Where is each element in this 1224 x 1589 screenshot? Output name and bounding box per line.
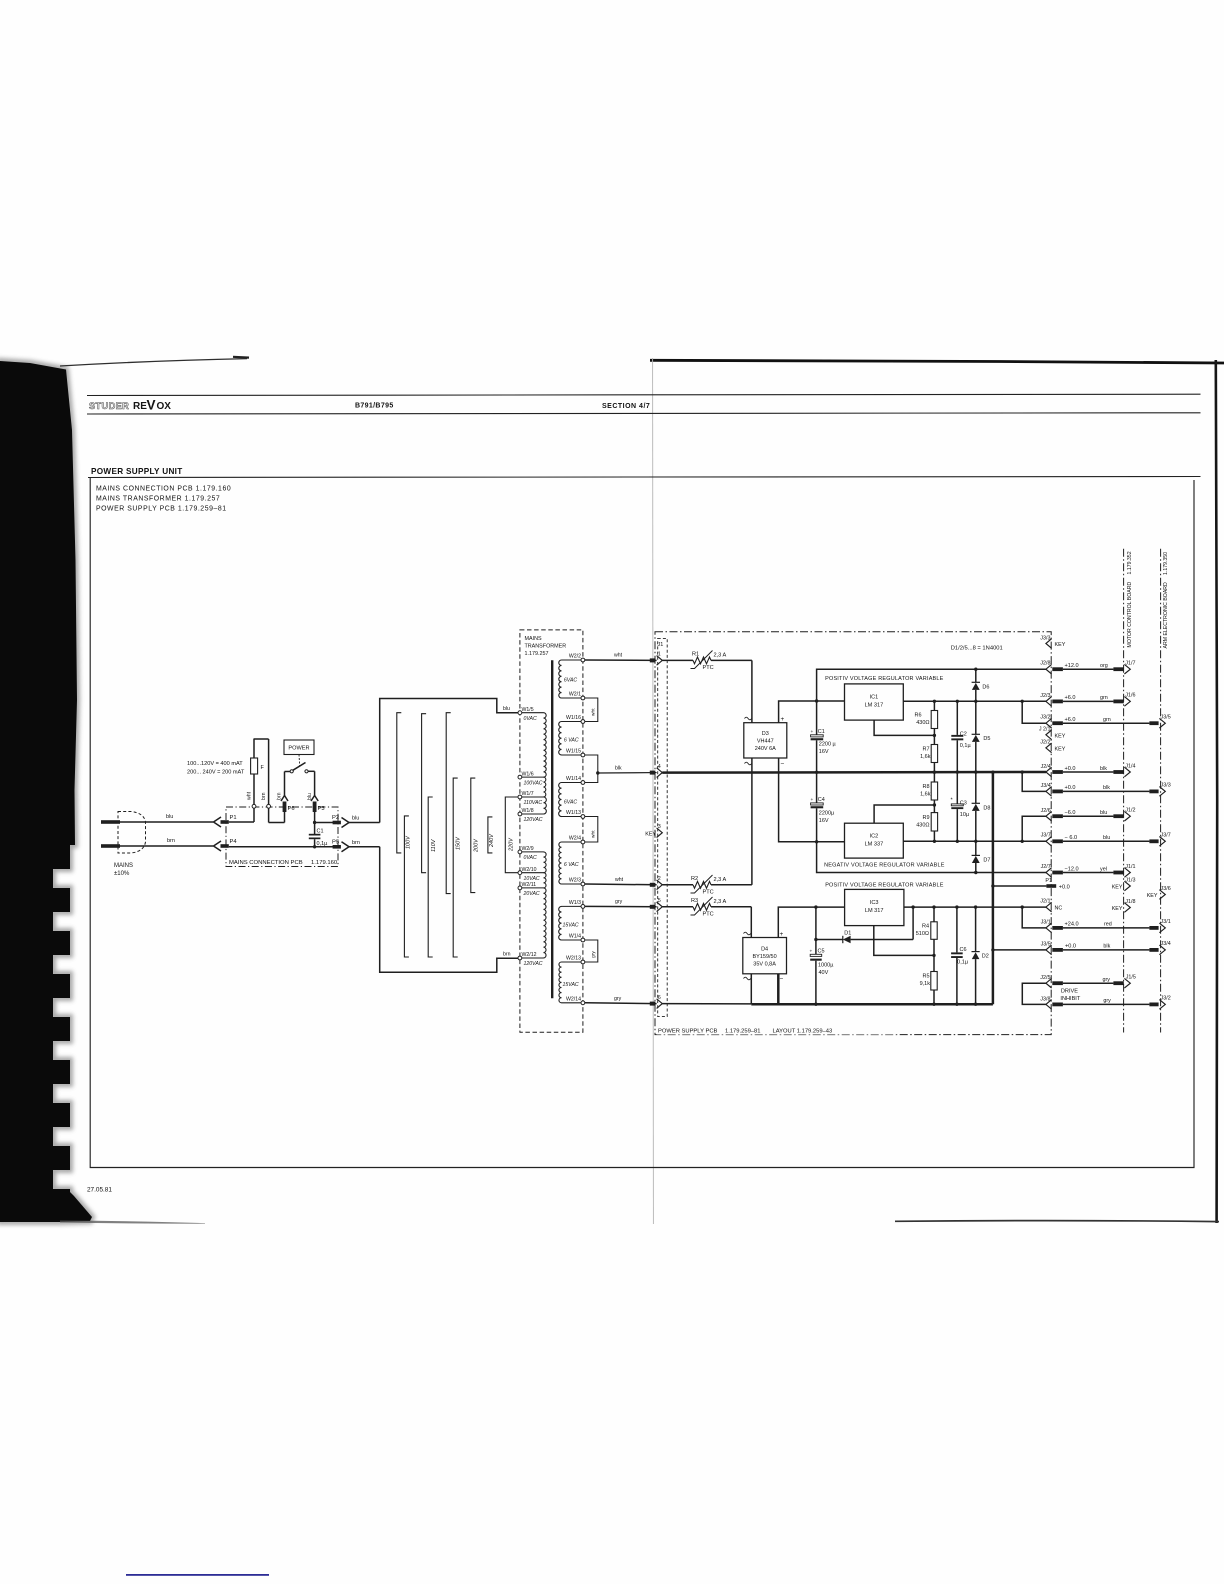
svg-text:P2: P2: [332, 815, 339, 821]
selector bracket 110V a: [422, 714, 427, 873]
diode D6: [975, 669, 977, 682]
svg-text:9,1k: 9,1k: [920, 981, 931, 987]
svg-text:+0.0: +0.0: [1065, 944, 1076, 950]
svg-text:KEY: KEY: [645, 831, 656, 837]
connector P6: [283, 802, 287, 813]
svg-text:D3: D3: [762, 731, 769, 737]
svg-text:+0.0: +0.0: [1065, 766, 1076, 772]
svg-text:C2: C2: [960, 732, 967, 738]
wire blu P2 to selector: [349, 822, 380, 824]
svg-text:D6: D6: [982, 685, 989, 691]
svg-text:−12.0: −12.0: [1065, 866, 1079, 872]
svg-text:J1/1: J1/1: [1125, 864, 1135, 870]
junction circle wht: [252, 804, 256, 808]
svg-text:R3: R3: [691, 898, 698, 904]
svg-text:0,1µ: 0,1µ: [960, 743, 972, 749]
svg-text:gry: gry: [590, 951, 596, 958]
op-amp regulator IC2 LM337: [845, 823, 904, 858]
svg-text:C4: C4: [818, 797, 825, 803]
svg-text:2200 µ: 2200 µ: [819, 742, 837, 748]
wire IC1 output +6V: [903, 700, 1046, 702]
svg-text:1,6k: 1,6k: [920, 754, 931, 760]
svg-text:P4: P4: [230, 839, 238, 845]
resistor R9 430: [933, 805, 935, 813]
capacitor C4 2200u 16V: [816, 772, 818, 803]
svg-text:+: +: [811, 730, 814, 735]
connector P1: [214, 817, 222, 827]
svg-text:W2/1: W2/1: [569, 692, 581, 698]
svg-text:brn: brn: [167, 838, 175, 844]
svg-text:110V: 110V: [431, 838, 437, 852]
secondary terminal W1/15: [581, 753, 585, 757]
connector J1 pin 2: [650, 883, 656, 887]
svg-text:100V: 100V: [406, 835, 412, 849]
wire +0.0 blk J3/5 to J3/4: [991, 948, 994, 951]
wire wht P1 to fuse: [229, 821, 254, 823]
selector bracket 200V: [471, 778, 476, 893]
svg-text:510Ω: 510Ω: [916, 931, 929, 937]
svg-text:gry: gry: [614, 996, 622, 1002]
svg-text:15VAC: 15VAC: [563, 923, 579, 929]
secondary terminal W1/14: [581, 781, 585, 785]
svg-text:+6.0: +6.0: [1065, 717, 1076, 723]
secondary winding W1/16-W1/15 6VAC: [559, 722, 562, 755]
svg-text:W1/6: W1/6: [522, 771, 534, 777]
svg-text:STUDER: STUDER: [89, 401, 129, 411]
svg-text:R2: R2: [691, 876, 698, 882]
svg-text:LM 317: LM 317: [865, 908, 884, 914]
svg-text:150V: 150V: [456, 836, 462, 850]
secondary winding W1/3-W1/4 15VAC: [559, 906, 562, 940]
svg-text:P6: P6: [288, 806, 295, 812]
wire D3 minus output: [779, 758, 845, 842]
svg-text:C6: C6: [959, 947, 966, 953]
svg-text:V: V: [147, 398, 156, 413]
svg-text:blu: blu: [503, 706, 510, 712]
svg-text:blu: blu: [307, 793, 313, 800]
jumper 220V W1/7 to W2/10: [505, 797, 518, 873]
primary winding W1/6-W1/7: [544, 777, 546, 797]
svg-text:1.179.352: 1.179.352: [1127, 551, 1133, 574]
svg-text:+0.0: +0.0: [1065, 785, 1076, 791]
mains transformer box: [520, 630, 583, 1032]
svg-text:J1/6: J1/6: [1125, 693, 1135, 699]
svg-text:wht: wht: [614, 653, 623, 659]
svg-text:+: +: [811, 798, 814, 803]
wire R3 to D4: [750, 907, 752, 938]
svg-text:KEY: KEY: [1112, 906, 1123, 912]
wire IC3 adj: [874, 926, 934, 956]
svg-text:J1/7: J1/7: [1125, 661, 1135, 667]
svg-text:SECTION 4/7: SECTION 4/7: [602, 403, 650, 410]
svg-text:J3/3: J3/3: [1161, 783, 1171, 789]
resistor R2 PTC 2.3A: [662, 884, 693, 886]
svg-text:C5: C5: [818, 949, 825, 955]
svg-text:W1/7: W1/7: [522, 791, 534, 797]
secondary terminal W2/13: [581, 960, 585, 964]
svg-text:+: +: [781, 716, 785, 723]
wire D4 plus output: [778, 907, 816, 937]
wire IC1 input: [817, 700, 845, 702]
svg-text:LM 337: LM 337: [865, 842, 884, 848]
junction circle brn: [267, 804, 271, 808]
connector P3: [311, 796, 318, 802]
svg-text:6 VAC: 6 VAC: [564, 738, 579, 744]
svg-text:MAINS TRANSFORMER 1.179.257: MAINS TRANSFORMER 1.179.257: [96, 496, 220, 503]
selector bracket 150V a: [446, 713, 451, 894]
svg-text:120VAC: 120VAC: [524, 817, 543, 823]
svg-text:W1/3: W1/3: [569, 900, 581, 906]
transformer core: [551, 660, 553, 998]
primary terminal W1/7 110VAC: [518, 795, 522, 799]
svg-text:1.179.257: 1.179.257: [525, 651, 549, 657]
secondary terminal W2/2: [581, 658, 585, 662]
svg-text:+24.0: +24.0: [1065, 922, 1079, 928]
svg-text:ARM ELECTRONIC BOARD: ARM ELECTRONIC BOARD: [1163, 582, 1169, 649]
selector bracket 100V b: [404, 816, 409, 957]
secondary terminal W1/4: [581, 938, 585, 942]
wire -6.0 blu J2/6 to J1/2: [1021, 840, 1024, 843]
svg-text:gry: gry: [1103, 977, 1111, 983]
blue pen line bottom: [126, 1574, 269, 1576]
capacitor C6 0.1u: [956, 907, 958, 952]
svg-text:J3/5: J3/5: [1161, 715, 1171, 721]
svg-text:W1/16: W1/16: [566, 715, 581, 721]
label MAINS TRANSFORMER 1.179.257: [522, 632, 570, 657]
scan page right edge vertical: [1216, 360, 1217, 1223]
svg-text:− 6.0: − 6.0: [1065, 835, 1078, 841]
wire +24.0 red J3/1 to J3/1: [1021, 905, 1024, 908]
svg-text:D1/2/5...8 = 1N4001: D1/2/5...8 = 1N4001: [951, 646, 1003, 652]
svg-text:DRIVE: DRIVE: [1061, 989, 1078, 995]
wire to P2: [315, 822, 333, 824]
secondary terminal W1/13: [581, 815, 585, 819]
header top rule: [87, 394, 1201, 396]
secondary terminal W2/1: [581, 696, 585, 700]
svg-text:J3/4: J3/4: [1161, 941, 1171, 947]
wire brn P4 to P5: [229, 846, 333, 848]
svg-text:1,6k: 1,6k: [920, 792, 931, 798]
svg-text:0VAC: 0VAC: [524, 855, 538, 861]
wire wht W2/2 to J1 pin1: [585, 659, 657, 661]
svg-text:+12.0: +12.0: [1065, 663, 1079, 669]
wire wht W2/3 to J1 pin2: [585, 883, 657, 886]
bottom rail heavy: [751, 1003, 993, 1006]
svg-text:blk: blk: [1103, 944, 1110, 950]
svg-text:POSITIV VOLTAGE REGULATOR V: POSITIV VOLTAGE REGULATOR VARIABLE: [825, 883, 944, 889]
svg-text:1.179.350: 1.179.350: [1163, 552, 1169, 575]
svg-text:10VAC: 10VAC: [524, 876, 540, 882]
svg-text:±10%: ±10%: [114, 871, 130, 877]
connector P2: [333, 821, 341, 825]
svg-text:240V 6A: 240V 6A: [755, 746, 776, 752]
svg-text:W1/15: W1/15: [566, 749, 581, 755]
wire D3 plus output: [779, 701, 817, 723]
wire brn selector bottom path to W2/12: [380, 847, 518, 972]
diode D2: [975, 907, 977, 952]
svg-text:brn: brn: [277, 792, 283, 800]
wire J1 pin6 to D4: [662, 1003, 751, 1005]
svg-text:KEY: KEY: [1147, 893, 1158, 899]
svg-text:C3: C3: [960, 801, 967, 807]
svg-text:grn: grn: [1103, 717, 1111, 723]
resistor R4 510: [933, 907, 935, 922]
svg-text:brn: brn: [352, 840, 360, 846]
capacitor C1 0.1u: [314, 823, 316, 835]
primary terminal W2/12 120VAC: [518, 956, 522, 960]
svg-text:J3/7: J3/7: [1161, 833, 1171, 839]
svg-text:D2: D2: [982, 954, 989, 960]
svg-text:J2/1: J2/1: [1040, 899, 1050, 905]
svg-text:5: 5: [658, 898, 661, 904]
op-amp regulator IC3 LM317: [845, 889, 904, 925]
svg-text:NC: NC: [1055, 906, 1063, 912]
jumper W2/1 to W1/16 wht: [585, 698, 598, 722]
svg-text:org: org: [1100, 663, 1108, 669]
svg-text:P3: P3: [318, 806, 325, 812]
svg-text:16V: 16V: [819, 818, 829, 824]
resistor R3 PTC 2.3A: [662, 906, 693, 908]
svg-text:D7: D7: [983, 858, 990, 864]
svg-text:430Ω: 430Ω: [916, 720, 929, 726]
secondary winding W1/14-W1/13 6VAC: [559, 783, 562, 817]
diode D1: [816, 939, 843, 941]
svg-text:120VAC: 120VAC: [524, 961, 543, 967]
wire IC3 output +24V: [904, 906, 1046, 908]
primary terminal W1/8 120VAC: [518, 812, 522, 816]
svg-text:grn: grn: [1100, 695, 1108, 701]
svg-text:2,3 A: 2,3 A: [714, 899, 727, 905]
connector P4: [214, 841, 222, 851]
svg-text:INHIBIT: INHIBIT: [1060, 996, 1080, 1002]
svg-text:J3/7: J3/7: [1041, 833, 1051, 839]
svg-text:D5: D5: [983, 736, 990, 742]
svg-text:430Ω: 430Ω: [916, 823, 929, 829]
svg-text:W2/9: W2/9: [522, 846, 534, 852]
svg-text:MAINS CONNECTION PCB 1.179.: MAINS CONNECTION PCB 1.179.160: [96, 486, 231, 493]
primary winding W2/11-W2/12: [544, 888, 547, 958]
svg-text:D4: D4: [761, 947, 768, 953]
ground rail 0V heavy: [662, 771, 1046, 774]
svg-text:blk: blk: [1100, 766, 1107, 772]
svg-text:P1: P1: [230, 815, 237, 821]
svg-text:P1: P1: [1045, 878, 1052, 884]
svg-text:+: +: [780, 931, 784, 938]
selector bracket 240V: [488, 817, 493, 853]
wire IC2 adj: [874, 805, 934, 823]
svg-text:wht: wht: [247, 791, 253, 800]
svg-text:POWER SUPPLY PCB 1.179.259–: POWER SUPPLY PCB 1.179.259–81: [96, 506, 227, 513]
svg-text:J3/2: J3/2: [1040, 715, 1050, 721]
secondary winding W2/2-W2/1 6VAC: [559, 660, 562, 698]
svg-text:OX: OX: [157, 401, 172, 412]
svg-text:MAINS: MAINS: [114, 863, 133, 869]
resistor R5 9.1k: [933, 955, 935, 971]
primary terminal W1/5 0VAC: [518, 711, 522, 715]
svg-text:2,3 A: 2,3 A: [714, 653, 727, 659]
secondary terminal W2/14: [581, 1001, 585, 1005]
svg-text:blu: blu: [1103, 835, 1110, 841]
svg-text:brn: brn: [503, 952, 511, 958]
svg-text:R5: R5: [922, 974, 929, 980]
svg-text:gry: gry: [1103, 998, 1111, 1004]
svg-text:W1/13: W1/13: [566, 810, 581, 816]
svg-text:0VAC: 0VAC: [524, 716, 538, 722]
title underline / frame top rule: [88, 477, 1201, 478]
scan binding black band left edge: [0, 361, 92, 1222]
svg-text:6 VAC: 6 VAC: [564, 862, 579, 868]
page center fold line: [652, 358, 655, 1224]
svg-text:wht: wht: [615, 877, 624, 883]
primary winding W1/7-W1/8: [544, 797, 547, 814]
primary winding W2/10-W2/11: [544, 873, 547, 888]
svg-text:LM 317: LM 317: [865, 703, 884, 709]
svg-text:10µ: 10µ: [960, 812, 970, 818]
junction P3 C1: [313, 821, 316, 824]
svg-text:D1: D1: [844, 931, 851, 937]
svg-text:PTC: PTC: [703, 911, 714, 917]
svg-text:C1: C1: [818, 729, 825, 735]
mains connection PCB box: [226, 807, 338, 867]
connector J1 pin 3 KEY: [657, 828, 663, 838]
svg-text:KEY: KEY: [1112, 884, 1123, 890]
svg-text:240V: 240V: [489, 833, 495, 848]
capacitor C2 0.1u: [956, 701, 958, 735]
svg-text:blu: blu: [166, 814, 173, 820]
svg-text:KEY: KEY: [1055, 642, 1066, 648]
svg-text:R7: R7: [922, 747, 929, 753]
selector bracket 110V b: [428, 797, 433, 957]
svg-text:J2/8: J2/8: [1040, 661, 1050, 667]
svg-text:W2/12: W2/12: [522, 952, 537, 958]
svg-text:D8: D8: [983, 806, 990, 812]
wire IC3 input: [816, 906, 845, 908]
svg-text:20VAC: 20VAC: [523, 891, 540, 897]
svg-text:blk: blk: [615, 766, 622, 772]
secondary terminal W1/16: [581, 720, 585, 724]
rectifier D4 BY159/50: [743, 938, 787, 974]
svg-text:100VAC: 100VAC: [524, 780, 543, 786]
svg-text:+: +: [810, 950, 813, 955]
svg-text:KEY: KEY: [1055, 746, 1066, 752]
svg-text:2: 2: [658, 876, 661, 882]
primary terminal W2/10 10VAC: [518, 871, 522, 875]
svg-text:J1: J1: [658, 642, 664, 648]
svg-text:MOTOR CONTROL BOARD: MOTOR CONTROL BOARD: [1127, 582, 1133, 648]
diode D5: [975, 701, 977, 734]
svg-text:1.179.160: 1.179.160: [311, 860, 338, 866]
jumper W1/4 to W2/13 gry: [585, 940, 598, 962]
svg-text:40V: 40V: [819, 970, 829, 976]
wire blu mains to P1: [146, 821, 214, 823]
svg-text:RE: RE: [133, 401, 147, 412]
diode D7: [975, 841, 977, 855]
svg-text:C1: C1: [317, 829, 324, 835]
arm electronic board line: [1160, 549, 1162, 1033]
svg-text:blu: blu: [1100, 810, 1107, 816]
svg-text:200V: 200V: [474, 838, 480, 853]
scan page top edge line right half: [650, 360, 1224, 363]
svg-text:3: 3: [658, 824, 661, 830]
svg-text:LAYOUT 1.179.259–43: LAYOUT 1.179.259–43: [773, 1029, 833, 1035]
svg-text:wht: wht: [591, 830, 597, 838]
svg-text:W2/13: W2/13: [566, 956, 581, 962]
svg-text:MAINS CONNECTION PCB: MAINS CONNECTION PCB: [229, 860, 303, 866]
power supply PCB box: [655, 632, 1051, 1035]
svg-text:gry: gry: [615, 899, 623, 905]
diode D8: [975, 772, 977, 803]
svg-text:red: red: [1104, 922, 1112, 928]
header bottom rule: [87, 413, 1201, 414]
svg-text:P5: P5: [332, 840, 339, 846]
selector bracket 100V a: [397, 713, 402, 853]
wire D4 minus output: [777, 974, 780, 1004]
drive inhibit loop J2/5 to J3/8: [1022, 983, 1046, 1004]
svg-text:6VAC: 6VAC: [564, 800, 578, 806]
wire gry W2/14 to J1 pin6: [585, 1002, 657, 1005]
svg-text:R4: R4: [922, 924, 929, 930]
wire gry W1/3 to J1 pin5: [585, 905, 657, 907]
svg-text:+6.0: +6.0: [1065, 695, 1076, 701]
primary terminal W2/9 0VAC: [518, 850, 522, 854]
svg-text:W2/14: W2/14: [566, 997, 581, 1003]
secondary terminal W2/4: [581, 840, 585, 844]
svg-text:W1/4: W1/4: [569, 934, 581, 940]
power switch S1: [285, 771, 291, 773]
svg-text:IC1: IC1: [870, 695, 879, 701]
svg-text:PTC: PTC: [703, 889, 714, 895]
wire D1 to IC3 out: [912, 907, 914, 939]
capacitor C5 1000u 40V: [815, 907, 817, 939]
svg-text:IC2: IC2: [870, 834, 879, 840]
svg-text:−: −: [781, 761, 785, 768]
heavy vertical 0V link: [992, 772, 995, 1004]
wire blu switch to P3: [308, 770, 315, 772]
secondary terminal W2/3: [581, 882, 585, 886]
link W1/15 W1/14 junction blk: [585, 755, 598, 783]
svg-text:100...120V = 400 mAT: 100...120V = 400 mAT: [187, 761, 243, 767]
wire blu selector top path to W1/5: [380, 699, 518, 823]
jumper W1/13 to W2/4 wht: [585, 817, 598, 843]
motor control board line: [1123, 549, 1125, 1033]
secondary winding W2/4-W2/3 6VAC: [559, 842, 562, 884]
scan page bottom edge line right half: [895, 1220, 1219, 1223]
svg-text:R8: R8: [922, 784, 929, 790]
svg-text:27.05.81: 27.05.81: [87, 1187, 112, 1194]
svg-text:blu: blu: [352, 816, 359, 822]
rail +12V unregulated: [817, 669, 1046, 701]
svg-text:R1: R1: [692, 652, 699, 658]
wire IC2 output -6V: [903, 840, 1046, 842]
svg-text:W2/3: W2/3: [569, 878, 581, 884]
svg-text:0,1µ: 0,1µ: [957, 960, 969, 966]
rectifier D3 VH447: [744, 723, 787, 758]
wire +0.0 P1: [991, 884, 994, 887]
wire +0.0 blk J3/4 to J3/3: [1021, 770, 1024, 773]
connector J1 pin 6: [650, 1002, 656, 1006]
svg-text:W1/8: W1/8: [522, 808, 534, 814]
svg-text:J3/2: J3/2: [1161, 996, 1171, 1002]
svg-text:16V: 16V: [819, 749, 829, 755]
svg-text:MAINS: MAINS: [525, 636, 542, 642]
svg-text:yel: yel: [1100, 866, 1107, 872]
svg-text:VH447: VH447: [757, 739, 774, 745]
primary terminal W2/11 20VAC: [518, 886, 522, 890]
schematic frame border: [90, 478, 1194, 1168]
primary winding W1/5-W1/6: [544, 713, 547, 777]
connector J1 pin 5: [650, 905, 656, 909]
svg-text:2,3 A: 2,3 A: [714, 877, 727, 883]
